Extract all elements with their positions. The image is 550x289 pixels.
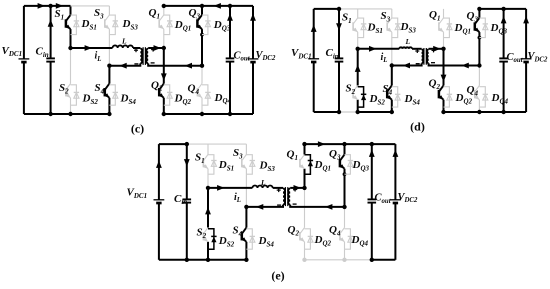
- label VDC2: [256, 50, 276, 62]
- wire d bottom rail segment: [339, 111, 358, 113]
- label VDC2: [398, 192, 418, 204]
- label DQ4: [351, 234, 369, 247]
- label VDC2: [528, 51, 548, 63]
- wire c S2 leg: [70, 48, 72, 114]
- label DS1: [218, 159, 234, 172]
- diode DQ1: [164, 15, 173, 34]
- capacitor Cin: [46, 58, 55, 61]
- label Q4: [467, 84, 479, 97]
- label S2: [197, 227, 207, 240]
- label L: [405, 37, 411, 46]
- diode DQ3: [479, 18, 488, 37]
- wire c iL (node A to inductor): [68, 45, 112, 51]
- transformer T (L primary / secondary): [134, 47, 155, 65]
- wire d transformer secondary to node C: [429, 46, 446, 52]
- transistor Q3: [475, 18, 480, 32]
- label Q2: [288, 224, 300, 237]
- label DS2: [82, 93, 99, 106]
- wire d top rail primary bridge: [339, 8, 392, 10]
- label Q2: [151, 79, 163, 92]
- wire d VDC2 branch: [523, 9, 529, 112]
- wire d bottom rail segment: [314, 111, 339, 113]
- diode DS4: [246, 229, 255, 249]
- wire e transformer secondary to node C: [290, 185, 306, 191]
- wire d VDC1 branch: [311, 9, 317, 112]
- label S3: [94, 7, 104, 20]
- junction dots d bottom rail: [337, 110, 506, 114]
- wire e secondary return (node D): [290, 204, 346, 210]
- diode DS1: [358, 18, 367, 37]
- label Q4: [188, 83, 200, 96]
- label VDC1: [127, 187, 148, 200]
- label Q1: [287, 149, 298, 162]
- inductor L: [399, 47, 412, 48]
- wire c secondary return (node D): [148, 63, 204, 69]
- wire c Q4 leg: [201, 66, 203, 114]
- capacitor Cout: [226, 58, 235, 61]
- caption (e): [271, 269, 284, 283]
- transistor S4: [387, 86, 392, 100]
- wire e S4 leg: [245, 207, 247, 260]
- svg-text:(c): (c): [131, 121, 144, 135]
- diode DS2: [208, 229, 217, 249]
- diode DS4: [109, 85, 118, 105]
- label iL: [381, 52, 388, 64]
- battery VDC1: [19, 59, 30, 62]
- label iL: [234, 192, 241, 204]
- wire d bottom rail segment: [358, 111, 392, 113]
- label DS3: [259, 160, 276, 173]
- diode DS3: [392, 18, 401, 37]
- label S1: [342, 12, 352, 25]
- wire d top rail secondary: [477, 7, 526, 11]
- transformer T (L primary / secondary): [277, 187, 297, 206]
- wire e inductor to transformer: [273, 187, 283, 189]
- label S3: [233, 147, 243, 160]
- transistor S4: [105, 84, 110, 98]
- wire e top rail secondary: [302, 141, 395, 147]
- caption (c): [131, 121, 144, 135]
- wire d secondary return (node D): [429, 63, 482, 69]
- svg-text:(e): (e): [271, 269, 284, 283]
- transformer T (L primary / secondary): [415, 48, 435, 65]
- label Q1: [149, 7, 160, 20]
- transistor Q4: [340, 228, 345, 242]
- wire c Cin branch: [48, 4, 54, 114]
- label S2: [59, 82, 69, 95]
- svg-text:L: L: [405, 37, 411, 46]
- wire e Cin branch: [184, 142, 190, 260]
- transistor Q1: [159, 15, 164, 29]
- wire e Q3 leg: [343, 144, 347, 207]
- wire e Q2 leg: [304, 188, 306, 260]
- label L: [121, 37, 127, 46]
- transistor S2: [203, 228, 208, 242]
- diode DQ3: [345, 155, 354, 175]
- label DS4: [120, 93, 137, 106]
- transistor S2: [66, 84, 71, 98]
- label S4: [383, 83, 393, 96]
- wire d iL (node A to inductor): [356, 46, 400, 52]
- transistor S2: [353, 86, 358, 100]
- wire c top rail primary (input side): [24, 3, 71, 9]
- wire c transformer primary return (node B): [107, 63, 140, 69]
- inductor L: [113, 45, 133, 48]
- wire e S2 leg: [205, 188, 211, 260]
- label DS2: [218, 235, 235, 248]
- transistor Q3: [340, 155, 345, 169]
- diode DS2: [358, 87, 367, 107]
- wire c inductor to transformer: [133, 47, 140, 49]
- wire e transformer primary return (node B): [244, 204, 283, 210]
- transistor Q2: [300, 228, 305, 242]
- svg-text:(d): (d): [410, 120, 425, 134]
- junction dots e bottom rail: [185, 258, 374, 262]
- wire d top rail primary (input side): [314, 8, 339, 10]
- diode DQ4: [202, 85, 211, 105]
- wire e Q1 leg: [304, 144, 306, 188]
- wire c transformer secondary to node C: [148, 45, 166, 51]
- label Q3: [189, 7, 201, 20]
- label VDC1: [291, 47, 312, 60]
- transistor S3: [242, 155, 247, 169]
- label DQ2: [314, 234, 332, 247]
- wire e VDC1 branch: [156, 144, 162, 260]
- diode DQ2: [444, 87, 453, 107]
- battery VDC1: [154, 200, 165, 203]
- label DQ4: [214, 92, 232, 105]
- label DS2: [369, 93, 386, 106]
- label DS3: [122, 18, 139, 31]
- diode DQ2: [164, 85, 173, 105]
- wire d transformer primary return (node B): [390, 63, 422, 69]
- svg-text:L: L: [260, 178, 266, 187]
- label DQ3: [213, 19, 231, 32]
- diode DQ1: [305, 155, 314, 175]
- label Q4: [329, 224, 341, 237]
- wire c Q2 leg: [161, 48, 167, 114]
- wire d Q2 leg: [441, 49, 447, 112]
- wire d Q1 leg: [443, 9, 445, 49]
- svg-text:L: L: [121, 37, 127, 46]
- wire e S1 leg: [207, 144, 209, 188]
- junction dots c bottom rail: [48, 112, 232, 116]
- label S1: [195, 152, 205, 165]
- wire c S4 leg: [108, 66, 110, 114]
- label iL: [95, 51, 102, 63]
- wire d Q4 leg: [478, 66, 480, 113]
- label S4: [233, 225, 243, 238]
- capacitor Cout: [368, 199, 377, 202]
- label Cin: [174, 193, 187, 206]
- wire d inductor to transformer: [412, 48, 422, 50]
- transistor S3: [387, 18, 392, 32]
- diode DQ4: [479, 87, 488, 107]
- label DQ1: [314, 159, 332, 172]
- label DQ3: [352, 159, 370, 172]
- label DS4: [404, 93, 421, 106]
- battery VDC2: [390, 200, 401, 203]
- label Q1: [429, 9, 440, 22]
- label S3: [381, 10, 391, 23]
- wire d bottom rail segment: [444, 111, 527, 113]
- label DQ3: [490, 22, 508, 35]
- transistor Q2: [159, 84, 164, 98]
- wire e iL (node A to inductor): [206, 185, 253, 191]
- wire e bottom rail segment: [305, 259, 372, 261]
- wire c bottom rail segment: [24, 113, 110, 115]
- wire e S3 leg: [245, 144, 247, 207]
- wire e VDC2 branch: [393, 144, 399, 260]
- wire d S4 leg: [391, 66, 393, 113]
- label Cout: [507, 52, 524, 64]
- transistor S1: [353, 18, 358, 32]
- wire d S1 leg: [357, 9, 359, 49]
- diode DS2: [71, 85, 80, 105]
- battery VDC1: [308, 59, 319, 62]
- wire d Cin branch: [336, 7, 342, 112]
- inductor L: [252, 186, 272, 188]
- transistor Q4: [475, 86, 480, 100]
- label Cin: [326, 47, 339, 60]
- diode DS4: [392, 87, 401, 107]
- label Cout: [234, 50, 251, 62]
- transistor S3: [105, 15, 110, 29]
- label DQ1: [454, 22, 472, 35]
- transistor Q1: [300, 155, 305, 169]
- wire c S1 leg: [70, 6, 72, 48]
- label S2: [346, 83, 356, 96]
- wire c VDC2 branch: [250, 6, 256, 114]
- diode DS3: [109, 15, 118, 34]
- diode DS1: [71, 15, 80, 34]
- label Q3: [467, 10, 479, 23]
- label DQ4: [491, 92, 509, 105]
- label Cout: [375, 193, 392, 205]
- wire e Cout branch: [369, 144, 375, 260]
- wire e top rail primary bridge: [187, 143, 247, 145]
- label Q3: [329, 148, 341, 161]
- diode DQ4: [345, 229, 354, 249]
- label S4: [95, 82, 105, 95]
- wire e bottom rail segment: [372, 259, 396, 261]
- wire c bottom rail segment: [164, 113, 253, 115]
- wire e top rail primary (input side): [159, 143, 187, 145]
- label DS3: [400, 21, 417, 34]
- label VDC1: [2, 45, 23, 58]
- diode DQ1: [444, 18, 453, 37]
- label DS1: [367, 22, 383, 35]
- label S1: [55, 8, 65, 21]
- wire c Q1 leg: [163, 6, 165, 48]
- transistor S1: [203, 155, 208, 169]
- label DS4: [258, 235, 275, 248]
- transistor Q2: [439, 86, 444, 100]
- transistor S1: [66, 15, 71, 29]
- wire c Cout branch: [227, 6, 233, 114]
- wire e Q4 leg: [344, 207, 346, 260]
- label DQ2: [455, 92, 473, 105]
- wire c top rail secondary: [162, 3, 253, 9]
- transistor Q1: [439, 18, 444, 32]
- label Cin: [36, 46, 49, 59]
- wire d S2 leg: [355, 49, 361, 112]
- wire c S3 leg: [108, 6, 110, 66]
- diode DQ3: [202, 15, 211, 34]
- caption (d): [410, 120, 425, 134]
- transistor Q4: [197, 84, 202, 98]
- transistor S4: [242, 228, 247, 242]
- label Q2: [429, 78, 441, 91]
- capacitor Cin: [183, 199, 192, 202]
- diode DQ2: [305, 229, 314, 249]
- label DQ2: [174, 93, 192, 106]
- battery VDC2: [248, 59, 259, 62]
- wire c top rail primary bridge: [71, 5, 110, 7]
- transistor Q3: [197, 15, 202, 29]
- battery VDC2: [521, 59, 532, 62]
- diode DS3: [246, 155, 255, 175]
- label L: [260, 178, 266, 187]
- wire d S3 leg: [391, 9, 393, 66]
- wire e bottom rail segment: [159, 259, 247, 261]
- wire c VDC1 branch: [23, 6, 25, 114]
- wire c Q3 leg: [200, 6, 204, 66]
- diode DS1: [208, 155, 217, 175]
- capacitor Cout: [499, 58, 508, 61]
- wire d Cout branch: [501, 9, 507, 112]
- capacitor Cin: [335, 58, 344, 61]
- wire d Q3 leg: [478, 9, 482, 66]
- label DQ1: [174, 19, 192, 32]
- label DS1: [81, 18, 97, 31]
